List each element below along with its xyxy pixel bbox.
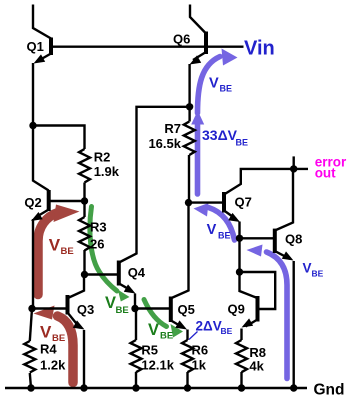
svg-text:BE: BE	[160, 331, 173, 342]
svg-text:V: V	[209, 76, 219, 92]
svg-text:Q8: Q8	[285, 232, 302, 247]
svg-text:BE: BE	[52, 333, 65, 344]
svg-text:Q5: Q5	[178, 302, 195, 317]
svg-text:R5: R5	[141, 343, 158, 358]
svg-text:1.2k: 1.2k	[40, 358, 66, 373]
svg-text:2ΔV: 2ΔV	[196, 319, 222, 334]
svg-text:BE: BE	[218, 230, 231, 240]
svg-text:Vin: Vin	[244, 38, 275, 60]
svg-text:V: V	[49, 236, 61, 255]
svg-text:16.5k: 16.5k	[148, 136, 181, 151]
svg-text:4k: 4k	[249, 358, 264, 373]
svg-text:1.9k: 1.9k	[94, 164, 120, 179]
svg-text:Q9: Q9	[228, 302, 245, 317]
svg-text:R7: R7	[164, 121, 181, 136]
svg-text:V: V	[105, 294, 116, 312]
svg-text:R6: R6	[192, 343, 209, 358]
svg-text:Q1: Q1	[27, 39, 44, 54]
svg-text:Q4: Q4	[128, 265, 146, 280]
svg-text:BE: BE	[312, 268, 324, 278]
svg-text:12.1k: 12.1k	[141, 358, 174, 373]
svg-text:V: V	[40, 323, 52, 342]
svg-text:V: V	[148, 321, 159, 339]
svg-text:V: V	[303, 261, 312, 276]
svg-text:1k: 1k	[192, 358, 207, 373]
svg-text:BE: BE	[61, 246, 74, 257]
svg-text:R2: R2	[94, 150, 111, 165]
svg-text:BE: BE	[116, 305, 129, 316]
svg-text:Q2: Q2	[24, 195, 41, 210]
svg-text:Q7: Q7	[235, 195, 252, 210]
svg-text:BE: BE	[236, 137, 249, 147]
svg-text:Q6: Q6	[173, 32, 190, 47]
svg-text:33ΔV: 33ΔV	[202, 127, 238, 143]
svg-text:Gnd: Gnd	[314, 382, 345, 399]
svg-text:BE: BE	[221, 326, 233, 336]
svg-text:26: 26	[90, 237, 104, 252]
svg-text:V: V	[207, 222, 217, 238]
svg-text:BE: BE	[220, 84, 233, 94]
svg-text:Q3: Q3	[77, 302, 94, 317]
svg-text:out: out	[315, 166, 336, 181]
svg-text:R3: R3	[90, 220, 107, 235]
